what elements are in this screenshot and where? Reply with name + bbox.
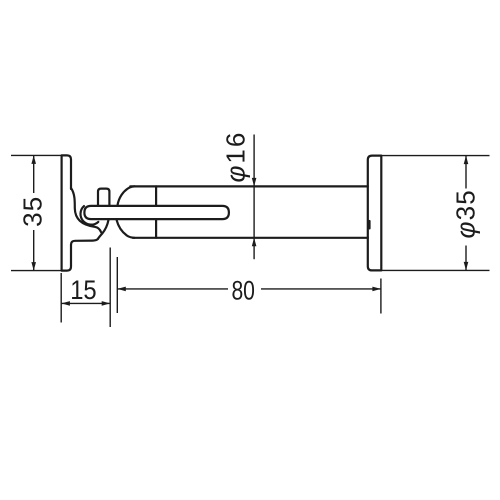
hook outer sweep from plate [71, 188, 102, 234]
arrowhead 35 down [31, 262, 36, 271]
dim line 35 lower [33, 230, 35, 271]
arrowhead 35 up [31, 155, 36, 164]
wall flange phi35 [368, 156, 382, 271]
rod tube phi16 top edge [130, 185, 367, 187]
dim line phi16 [253, 135, 255, 260]
cap joint line lower segment [155, 219, 157, 238]
arrowhead phi16 down [252, 178, 257, 187]
svg-text:15: 15 [70, 275, 97, 305]
svg-text:35: 35 [18, 196, 48, 227]
rod end cap bottom arc [117, 220, 135, 238]
arrowhead 80 left [117, 287, 126, 292]
cap joint line upper segment [155, 186, 157, 205]
extension line below plate [60, 273, 62, 323]
dim line phi35 upper [465, 156, 467, 189]
dim line phi35 lower [465, 246, 467, 271]
arrowhead 15 right [102, 301, 111, 306]
svg-text:φ35: φ35 [451, 189, 481, 239]
svg-text:80: 80 [231, 276, 255, 306]
arrowhead phi16 up [252, 238, 257, 247]
dim line 15 [61, 302, 110, 304]
svg-text:φ16: φ16 [221, 131, 251, 183]
extension line below cap left [116, 257, 118, 313]
support arm bottom edge [71, 239, 98, 245]
clamp tab above bar [98, 189, 109, 206]
trumpet flare descending curve [98, 220, 109, 239]
dim line 80 left part [117, 288, 228, 290]
extension line wall top [11, 154, 62, 156]
arrowhead 80 right [372, 287, 381, 292]
extension line below flange [380, 279, 382, 314]
dim line 35 upper [33, 155, 35, 193]
detail tick on flange edge [368, 221, 370, 228]
extension line wall bottom [11, 270, 62, 272]
dim line 80 right part [261, 288, 381, 290]
rod tube phi16 bottom edge [133, 237, 368, 239]
rod end cap top arc [117, 186, 134, 205]
arrowhead phi35 down [464, 262, 469, 271]
hook inner lip [81, 206, 99, 225]
extension line flange bottom right [381, 269, 489, 271]
slide bar (stadium) [84, 206, 229, 219]
extension line flange top right [381, 155, 489, 157]
extension line below tab [109, 248, 111, 328]
wall plate left bracket [62, 155, 71, 270]
arrowhead phi35 up [464, 156, 469, 165]
arrowhead 15 left [61, 301, 70, 306]
